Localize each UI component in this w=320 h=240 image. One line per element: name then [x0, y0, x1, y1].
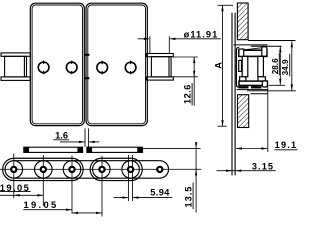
svg-text:19.1: 19.1: [275, 140, 298, 150]
svg-text:19.05: 19.05: [24, 199, 59, 210]
svg-text:ø11.91: ø11.91: [184, 29, 219, 39]
svg-text:19.05: 19.05: [0, 182, 30, 193]
svg-text:13.5: 13.5: [184, 186, 194, 208]
svg-text:5.94: 5.94: [150, 188, 170, 198]
svg-text:1.6: 1.6: [55, 130, 68, 140]
svg-text:34.9: 34.9: [281, 59, 290, 75]
svg-text:A: A: [214, 62, 224, 69]
svg-text:12.6: 12.6: [183, 84, 193, 104]
svg-text:28.6: 28.6: [271, 58, 280, 74]
svg-text:3.15: 3.15: [252, 161, 274, 171]
